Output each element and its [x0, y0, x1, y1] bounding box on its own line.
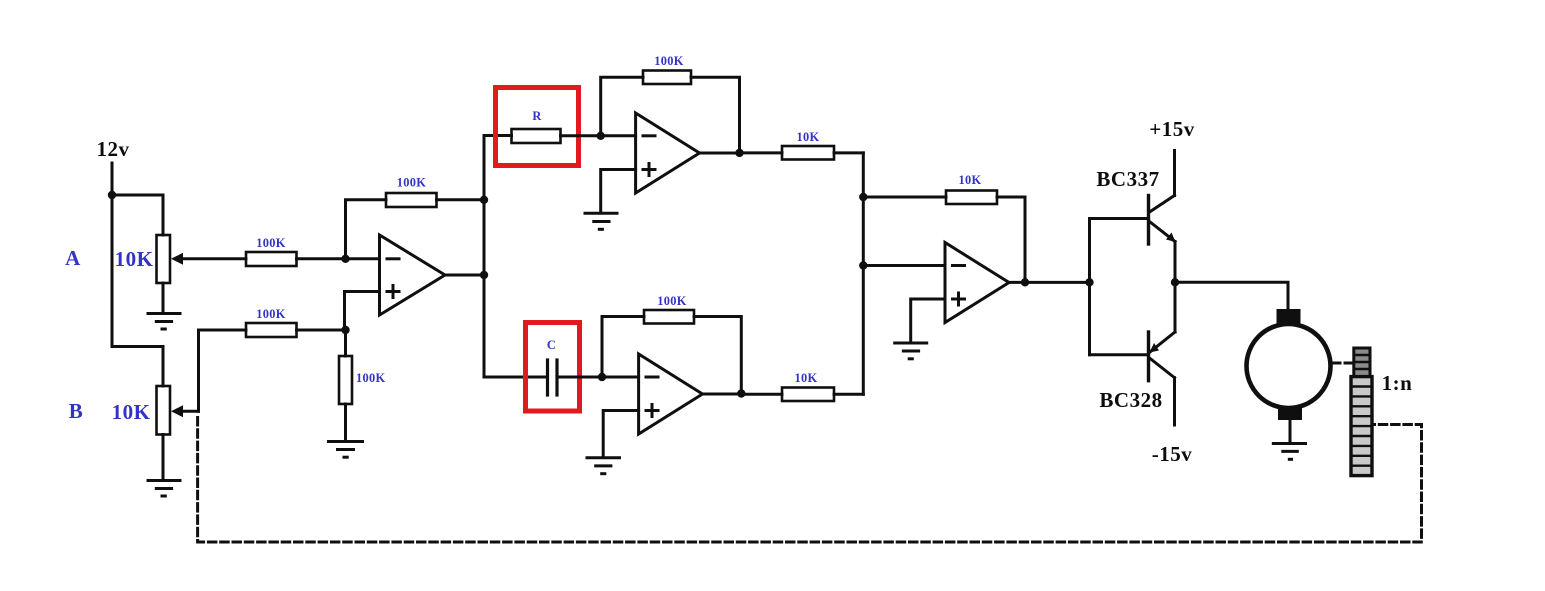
ground U2 plus: [585, 213, 617, 229]
wire dashed position feedback loop: [198, 418, 1422, 543]
wire U2 minus input: [601, 134, 636, 137]
wire U2 output to 10K: [740, 151, 783, 154]
svg-text:A: A: [65, 246, 81, 270]
wire U3 output: [703, 393, 742, 396]
node U1 non-inverting input: [341, 326, 349, 334]
wire U4 plus input to ground: [911, 299, 945, 342]
node U1 inverting input: [341, 255, 349, 263]
wire U3 output to 10K: [741, 393, 782, 396]
wire C to U3 inverting node: [557, 376, 602, 379]
node U2 output: [735, 149, 743, 157]
wire U3 minus input: [602, 376, 639, 379]
node transistor base junction: [1085, 278, 1093, 286]
node feedback meets output bus: [480, 196, 488, 204]
motor top terminal: [1277, 309, 1301, 324]
wire output node to motor: [1175, 282, 1288, 309]
wire U2 output: [700, 152, 740, 155]
svg-text:R: R: [532, 109, 542, 123]
wire BC337 emitter to output node: [1174, 242, 1177, 283]
wire bus to capacitor C: [484, 376, 546, 379]
svg-text:+15v: +15v: [1149, 117, 1194, 141]
red highlight box around R: [496, 88, 579, 166]
wire U1 output: [445, 274, 484, 277]
resistor 100K to ground: [339, 356, 352, 404]
node 12v to pot A junction: [108, 191, 116, 199]
wire U1 plus input: [345, 292, 380, 331]
node U1 output on bus: [480, 271, 488, 279]
wire 10K upper to summing bus: [834, 151, 863, 154]
wire feedback U1 to output bus: [437, 198, 485, 201]
wire 12v to pot A top: [112, 195, 163, 235]
wire 12v rail to pot B top: [112, 347, 163, 387]
svg-text:-15v: -15v: [1152, 442, 1193, 466]
wire pot B wiper horizontal: [181, 410, 199, 413]
op-amp U3: [639, 354, 703, 434]
potentiometer B body 10K: [157, 386, 171, 435]
svg-text:100K: 100K: [256, 236, 285, 250]
svg-text:10K: 10K: [115, 247, 154, 271]
wire R to U2 inverting node: [561, 134, 601, 137]
pot B wiper arrowhead: [171, 405, 183, 417]
motor bottom terminal: [1278, 407, 1302, 420]
resistor 100K input B: [246, 323, 297, 337]
wire U3 feedback up: [602, 317, 644, 378]
svg-text:10K: 10K: [959, 173, 982, 187]
svg-text:10K: 10K: [112, 400, 151, 424]
resistor 100K feedback U2: [643, 71, 691, 85]
resistor 10K upper: [782, 146, 834, 160]
ground below 100K resistor: [329, 442, 363, 458]
wire BC328 emitter from output node: [1174, 282, 1177, 332]
svg-text:10K: 10K: [795, 371, 818, 385]
wire pot B to ground: [162, 435, 165, 480]
node U2 inverting input: [597, 132, 605, 140]
svg-text:100K: 100K: [356, 371, 385, 385]
svg-text:100K: 100K: [397, 176, 426, 190]
wire pot A wiper: [181, 257, 246, 260]
wire ground resistor to ground: [344, 404, 347, 440]
node U3 inverting input: [598, 373, 606, 381]
node U3 output: [737, 389, 745, 397]
gearbox rack lower segment 1:n: [1351, 377, 1372, 476]
wire base BC328: [1090, 353, 1149, 356]
ground motor: [1273, 444, 1305, 460]
wire 10K feedback to U4 output: [997, 197, 1025, 282]
wire base bus vertical: [1088, 219, 1091, 355]
resistor 10K feedback U4: [946, 191, 997, 205]
node U4 output: [1021, 278, 1029, 286]
wire U2 feedback up: [601, 77, 643, 136]
wire summing bus vertical: [862, 153, 865, 394]
wire base BC337: [1090, 217, 1149, 220]
op-amp U2: [636, 113, 700, 193]
resistor R body: [512, 129, 561, 143]
ground U4 plus: [895, 343, 927, 359]
wire bus to resistor R: [484, 134, 512, 137]
potentiometer A body 10K: [157, 235, 171, 283]
wire BC328 collector to -15v: [1173, 378, 1176, 425]
wire 10K lower to summing bus: [834, 393, 863, 396]
wire U4 minus input: [863, 264, 945, 267]
svg-text:10K: 10K: [797, 130, 820, 144]
ground pot B: [148, 481, 180, 497]
wire feedback U3 to output: [694, 317, 741, 394]
resistor 100K feedback U1: [386, 193, 437, 207]
op-amp U4: [945, 243, 1009, 323]
resistor 10K lower: [782, 388, 834, 402]
ground U3 plus: [587, 458, 620, 474]
svg-text:BC328: BC328: [1099, 388, 1162, 412]
wire U4 output: [1009, 281, 1090, 284]
svg-text:B: B: [69, 399, 84, 423]
wire BC337 collector to +15v: [1173, 151, 1176, 196]
node emitter output junction: [1171, 278, 1179, 286]
transistor Q2 BC328: [1149, 332, 1176, 381]
wire U3 plus input to ground: [603, 411, 638, 456]
svg-text:12v: 12v: [97, 137, 130, 161]
svg-text:100K: 100K: [657, 294, 686, 308]
transistor Q1 BC337: [1149, 196, 1176, 245]
node summing bus feedback tap: [859, 193, 867, 201]
wire pot A to ground: [162, 283, 165, 312]
node summing bus minus tap: [859, 261, 867, 269]
gearbox rack upper segment: [1354, 348, 1370, 377]
wire motor to ground: [1289, 420, 1292, 443]
capacitor C: [548, 360, 558, 395]
red highlight box around C: [526, 323, 580, 412]
pot A wiper arrowhead: [171, 253, 183, 265]
wire motor shaft dashes: [1333, 362, 1354, 365]
wire input B resistor to plus node: [297, 329, 346, 332]
wire 12v vertical rail: [111, 163, 114, 347]
wire input B resistor left to pot B wiper: [199, 330, 247, 411]
svg-text:1:n: 1:n: [1382, 371, 1413, 395]
svg-text:100K: 100K: [256, 307, 285, 321]
wire branch bus vertical: [483, 136, 486, 378]
wire feedback U2 to output: [691, 77, 740, 153]
resistor 100K feedback U3: [644, 310, 694, 324]
ground pot A: [148, 314, 180, 330]
svg-text:BC337: BC337: [1096, 167, 1159, 191]
wire U1 inverting node up to feedback resistor: [346, 200, 387, 259]
motor M body: [1247, 324, 1331, 408]
wire input A to inverting node: [297, 257, 346, 260]
svg-text:100K: 100K: [654, 54, 683, 68]
wire U2 plus input to ground: [601, 170, 636, 212]
op-amp U1: [380, 235, 446, 315]
wire plus node to ground resistor: [344, 330, 347, 356]
wire U4 feedback: [863, 196, 946, 199]
svg-text:C: C: [547, 338, 556, 352]
resistor 100K input A: [246, 252, 297, 266]
wire U1 minus input: [346, 257, 380, 260]
